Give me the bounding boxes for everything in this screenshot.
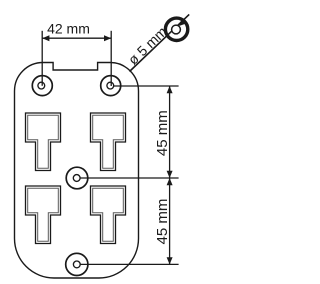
svg-text:ø 5 mm: ø 5 mm [125,23,170,67]
svg-text:45 mm: 45 mm [154,110,171,156]
svg-text:42 mm: 42 mm [47,21,90,37]
svg-text:45 mm: 45 mm [154,199,171,245]
